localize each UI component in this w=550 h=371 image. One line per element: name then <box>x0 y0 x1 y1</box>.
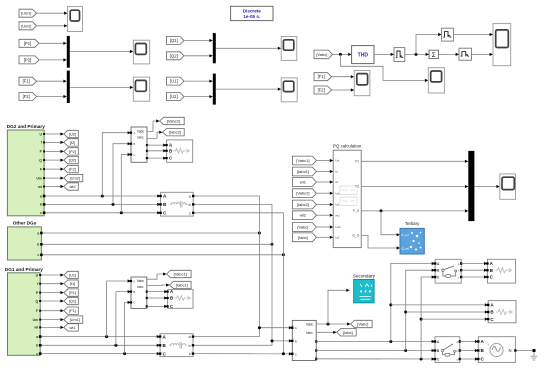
wire <box>147 297 164 299</box>
wire <box>147 291 164 293</box>
goto tag [Iabc2] <box>163 129 185 136</box>
svg-text:[Um2]: [Um2] <box>70 176 80 181</box>
svg-text:[Iabc1]: [Iabc1] <box>297 169 309 174</box>
wire T1 b to grid VI <box>194 341 289 345</box>
wire riser right b <box>406 270 435 350</box>
goto tag [Vabc] <box>351 320 373 327</box>
svg-text:B: B <box>134 142 136 146</box>
wire <box>332 76 351 78</box>
block transformer T1 <box>160 334 193 357</box>
scope THD big <box>493 24 511 66</box>
wire <box>37 12 65 14</box>
svg-text:[Q1]: [Q1] <box>69 299 76 304</box>
powergui Discrete 1e-05 s. <box>231 6 273 20</box>
svg-text:wt2: wt2 <box>69 184 75 189</box>
svg-text:[Vabc]: [Vabc] <box>357 322 368 327</box>
wire <box>42 319 61 321</box>
wire P2 <box>361 186 465 188</box>
svg-text:Iabc: Iabc <box>137 285 144 289</box>
wire Q_G to Tertiary <box>361 235 396 248</box>
goto tag [Q1] <box>64 297 79 304</box>
scope F <box>133 77 149 101</box>
svg-text:[f1]: [f1] <box>70 281 75 286</box>
svg-text:[Um2]: [Um2] <box>21 23 31 28</box>
svg-text:B: B <box>169 148 172 153</box>
svg-text:[F2]: [F2] <box>69 167 76 172</box>
wire <box>45 168 60 170</box>
wire riser phase c <box>282 213 284 354</box>
svg-text:[F1]: [F1] <box>318 74 325 79</box>
wire <box>39 42 63 44</box>
wire Vabc out grid <box>316 323 347 325</box>
wire <box>453 34 489 36</box>
wire phase a DG1 <box>42 336 157 338</box>
wire T1 a to grid VI <box>194 328 289 337</box>
goto tag [P2] <box>64 148 79 155</box>
from tag wt1 PQ <box>292 178 316 187</box>
svg-text:wt2: wt2 <box>300 213 307 218</box>
svg-text:Ia2: Ia2 <box>335 236 340 240</box>
wire riser c to VI1 <box>125 302 128 353</box>
goto tag [f1] <box>64 280 79 287</box>
wire <box>333 53 349 55</box>
wire <box>147 157 163 159</box>
svg-text:[Um1]: [Um1] <box>70 317 80 322</box>
block THD <box>352 46 374 64</box>
mux P1 P2 <box>67 36 70 68</box>
from tag [F1] right <box>314 73 332 81</box>
svg-text:DG2 and Primary: DG2 and Primary <box>7 124 45 129</box>
from tag [Vabc] top <box>314 50 333 59</box>
from tag [Um2] <box>19 22 37 30</box>
wire <box>374 53 391 55</box>
mux Q1 Q2 <box>213 33 216 63</box>
wire T1 c to grid VI <box>194 353 289 355</box>
block transformer T2 <box>161 192 194 216</box>
goto tag wt2 <box>64 183 79 190</box>
scope P <box>133 40 149 64</box>
svg-text:a: a <box>36 335 38 339</box>
svg-text:[Q1]: [Q1] <box>170 38 178 43</box>
wire <box>45 177 60 179</box>
wire <box>42 310 61 312</box>
filter block 3 <box>459 48 472 60</box>
svg-text:Ia1: Ia1 <box>335 203 340 207</box>
svg-text:[f2]: [f2] <box>70 140 75 145</box>
svg-text:PQ calculation: PQ calculation <box>333 144 362 149</box>
goto tag [F1] <box>64 307 79 314</box>
svg-text:Q_G: Q_G <box>352 234 359 238</box>
goto tag [Um1] <box>64 316 83 323</box>
wire <box>184 80 209 82</box>
svg-text:P1: P1 <box>355 160 359 164</box>
wire <box>316 181 329 183</box>
wire load B a <box>391 304 485 306</box>
goto tag [Iabc] <box>337 329 357 336</box>
wire <box>216 88 278 90</box>
scope P mux <box>500 174 516 199</box>
svg-text:A: A <box>295 326 297 330</box>
svg-text:b: b <box>189 203 191 207</box>
svg-text:A: A <box>134 131 136 135</box>
svg-text:[U1]: [U1] <box>170 79 178 84</box>
wire <box>184 96 209 98</box>
svg-text:b: b <box>188 344 190 348</box>
wire <box>70 86 130 88</box>
svg-text:[F1]: [F1] <box>69 308 76 313</box>
svg-text:[U2]: [U2] <box>170 94 178 99</box>
from tag wt2 PQ <box>292 211 316 220</box>
wire <box>332 89 351 91</box>
wire <box>45 133 60 135</box>
wire bus c <box>43 254 284 256</box>
scope Um <box>68 7 83 32</box>
svg-text:N: N <box>508 348 511 353</box>
wire <box>42 283 61 285</box>
wire phase b DG1 <box>42 344 157 346</box>
wire to Secondary <box>328 290 346 324</box>
wire <box>147 150 163 152</box>
svg-text:b: b <box>40 203 42 207</box>
wire <box>45 150 60 152</box>
wire branch up <box>416 35 438 55</box>
svg-text:Um: Um <box>36 176 41 180</box>
svg-text:[F2]: [F2] <box>23 94 30 99</box>
block three-phase load 1 <box>168 290 193 309</box>
scope F right <box>354 71 370 96</box>
from tag [U1] <box>167 77 185 85</box>
wire <box>37 25 65 27</box>
wire P_G branch to Tertiary <box>381 211 397 235</box>
wire <box>194 203 272 205</box>
wire grid c <box>316 358 431 360</box>
svg-text:Ua: Ua <box>335 159 339 163</box>
wire Iabc out grid <box>316 331 333 333</box>
wire Vabc to scope <box>340 54 425 80</box>
goto tag [U1] <box>64 271 79 278</box>
wire <box>39 59 63 61</box>
goto tag [f2] <box>64 139 79 146</box>
svg-text:Secondary: Secondary <box>353 273 376 278</box>
wire riser a to VI2 <box>102 133 127 196</box>
svg-text:c: c <box>37 253 39 257</box>
wire phase c DG2 <box>45 212 157 214</box>
svg-text:Tertiary: Tertiary <box>405 221 420 226</box>
wire P1 <box>361 160 465 162</box>
wire Vabc2 out <box>147 121 156 132</box>
mux U1 U2 <box>213 74 216 105</box>
svg-text:c: c <box>189 211 191 215</box>
wire <box>216 47 278 49</box>
wire riser b to VI1 <box>116 292 128 346</box>
wire grid b <box>316 350 431 352</box>
svg-text:Vabc: Vabc <box>137 130 145 134</box>
wire P_G <box>361 210 465 212</box>
svg-text:b: b <box>37 243 39 247</box>
svg-text:[U2]: [U2] <box>69 132 76 137</box>
from tag [Um1] <box>19 9 37 17</box>
svg-text:[Vabc2]: [Vabc2] <box>167 119 180 124</box>
goto tag [U2] <box>64 130 79 137</box>
svg-text:P_ref: P_ref <box>402 233 409 237</box>
wire <box>316 236 329 238</box>
from tag [Iabc] PQ <box>292 233 316 242</box>
wire <box>184 40 209 42</box>
wire grid a <box>316 341 431 343</box>
wire <box>184 55 209 57</box>
wire Iabc1 out <box>147 284 166 287</box>
wire <box>316 226 329 228</box>
wire <box>147 305 164 307</box>
mux P signals <box>468 151 474 221</box>
svg-text:Discrete: Discrete <box>243 8 262 13</box>
svg-text:C: C <box>133 301 135 305</box>
wire <box>42 274 61 276</box>
block VI measurement grid <box>292 320 316 360</box>
block three-phase load 2 <box>167 140 193 162</box>
svg-text:[U1]: [U1] <box>69 273 76 278</box>
svg-text:wt: wt <box>335 180 338 184</box>
svg-text:[Um1]: [Um1] <box>21 11 31 16</box>
svg-text:F: F <box>40 167 42 171</box>
svg-text:[F2]: [F2] <box>318 88 325 93</box>
wire <box>45 159 60 161</box>
svg-text:[Vabc]: [Vabc] <box>297 225 308 230</box>
svg-text:B: B <box>133 290 135 294</box>
wire <box>194 195 259 197</box>
svg-text:a: a <box>40 194 42 198</box>
from tag [P2] <box>19 56 39 64</box>
svg-text:wt1: wt1 <box>300 180 307 185</box>
svg-text:Vabc: Vabc <box>306 322 314 326</box>
scope U <box>281 78 297 102</box>
wire riser phase a <box>258 196 260 328</box>
svg-text:+: + <box>487 343 489 347</box>
from tag [Vabc2] PQ <box>292 189 316 198</box>
wire <box>474 186 496 188</box>
wire load B b <box>406 311 485 313</box>
from tag [Q2] <box>167 52 185 60</box>
svg-text:B: B <box>170 296 173 301</box>
goto tag [Um2] <box>64 174 83 181</box>
block VI measurement 1 <box>131 277 147 308</box>
svg-text:[P2]: [P2] <box>24 57 31 62</box>
svg-text:[Q2]: [Q2] <box>170 53 178 58</box>
svg-text:[Iabc]: [Iabc] <box>343 330 353 335</box>
wire <box>460 341 475 343</box>
filter block 1 <box>394 48 405 62</box>
from tag [P1] <box>19 39 39 47</box>
svg-text:wt1: wt1 <box>69 325 75 330</box>
block breaker 2 <box>435 337 460 363</box>
svg-text:Iabc: Iabc <box>306 331 313 335</box>
wire Iabc2 out <box>147 132 159 138</box>
ground <box>530 352 537 360</box>
svg-text:[Vabc1]: [Vabc1] <box>296 158 309 163</box>
sum block <box>429 50 438 58</box>
wire <box>45 186 60 188</box>
wire <box>45 141 60 143</box>
wire <box>37 96 64 98</box>
node load B b <box>404 311 407 314</box>
wire <box>460 358 475 360</box>
from tag [Vabc] PQ <box>292 223 316 232</box>
goto tag [Iabc1] <box>170 281 192 288</box>
wire to ground <box>517 350 534 352</box>
wire <box>438 53 455 55</box>
wire <box>316 171 329 173</box>
goto tag [Vabc2] <box>160 117 185 124</box>
svg-text:c: c <box>36 352 38 356</box>
wire riser phase b <box>271 204 273 341</box>
goto tag [Vabc1] <box>167 270 192 277</box>
svg-text:Um: Um <box>33 318 38 322</box>
svg-text:[Vabc1]: [Vabc1] <box>174 272 187 277</box>
svg-text:F: F <box>36 309 38 313</box>
svg-text:P2: P2 <box>355 185 359 189</box>
wire riser a to VI1 <box>107 281 128 337</box>
svg-text:[F1]: [F1] <box>23 79 30 84</box>
wire <box>42 292 61 294</box>
mux F1 F2 <box>67 71 70 103</box>
wire <box>70 51 130 53</box>
svg-text:[Iabc1]: [Iabc1] <box>176 283 188 288</box>
svg-text:DG1 and Primary: DG1 and Primary <box>5 267 43 272</box>
wire <box>316 192 329 194</box>
wire <box>316 204 329 206</box>
svg-text:Ua2: Ua2 <box>335 225 341 229</box>
block three-phase load A <box>487 259 515 283</box>
svg-text:wt1: wt1 <box>335 213 340 217</box>
goto tag wt1 <box>64 324 79 331</box>
wire <box>37 80 64 82</box>
wire phase c DG1 <box>42 353 157 355</box>
svg-text:B: B <box>295 339 297 343</box>
wire phase a DG2 <box>45 195 157 197</box>
node load B a <box>389 303 392 306</box>
filter block 2 <box>442 28 454 41</box>
svg-text:c: c <box>40 211 42 215</box>
goto tag [F2] <box>64 165 79 172</box>
wire <box>147 144 163 146</box>
wire <box>194 212 283 214</box>
scope Vabc <box>428 68 444 93</box>
goto tag [P1] <box>64 289 79 296</box>
svg-text:[Iabc2]: [Iabc2] <box>169 130 181 135</box>
wire bus b <box>43 243 272 245</box>
scope Q <box>281 37 297 61</box>
wire riser right a <box>391 264 435 342</box>
svg-text:Ia: Ia <box>335 170 338 174</box>
wire riser right c <box>421 277 435 359</box>
svg-text:Σ: Σ <box>432 52 436 59</box>
block three-phase load B <box>488 301 516 323</box>
svg-text:Q_ref: Q_ref <box>402 247 410 251</box>
svg-text:[Vabc]: [Vabc] <box>316 52 327 57</box>
wire load B c <box>421 318 485 320</box>
svg-text:Vabc: Vabc <box>137 279 145 283</box>
wire <box>42 326 61 328</box>
wire <box>472 53 490 55</box>
svg-text:THD: THD <box>358 52 369 58</box>
wire bus a <box>43 232 260 234</box>
wire <box>461 263 484 265</box>
svg-text:[Iabc]: [Iabc] <box>298 235 308 240</box>
svg-text:a: a <box>37 231 39 235</box>
svg-text:Other DGs: Other DGs <box>13 221 37 226</box>
svg-text:Q: Q <box>35 299 38 303</box>
block three-phase source <box>478 337 515 363</box>
wire riser b to VI2 <box>113 144 128 205</box>
svg-text:[P2]: [P2] <box>69 149 76 154</box>
wire phase b DG2 <box>45 203 157 205</box>
block VI measurement 2 <box>131 127 147 162</box>
from tag [Iabc1] PQ <box>292 167 316 176</box>
from tag [Vabc1] PQ <box>292 156 316 165</box>
from tag [F1] <box>19 77 37 85</box>
wire <box>405 53 426 55</box>
svg-text:c: c <box>189 352 191 356</box>
from tag [U2] <box>167 93 185 101</box>
goto tag [Q2] <box>64 156 79 163</box>
node load B c <box>420 318 423 321</box>
wire riser c to VI2 <box>121 155 127 213</box>
block breaker 1 <box>435 259 461 283</box>
wire <box>316 160 329 162</box>
from tag [Iabc2] PQ <box>292 200 316 209</box>
svg-text:A: A <box>133 279 135 283</box>
wire <box>460 350 475 352</box>
wire <box>461 269 484 271</box>
wire Vabc1 out <box>147 274 163 279</box>
svg-text:[Vabc2]: [Vabc2] <box>296 191 309 196</box>
svg-text:[P1]: [P1] <box>69 290 76 295</box>
wire <box>42 300 61 302</box>
from tag [F2] <box>19 93 37 101</box>
svg-text:b: b <box>36 344 38 348</box>
from tag [F2] right <box>314 86 332 94</box>
from tag [Q1] <box>167 37 185 45</box>
svg-text:[P1]: [P1] <box>24 41 31 46</box>
wire <box>461 276 484 278</box>
svg-text:C: C <box>134 153 136 157</box>
svg-text:Q: Q <box>39 158 42 162</box>
svg-text:[Iabc2]: [Iabc2] <box>297 202 309 207</box>
svg-text:Iabc: Iabc <box>137 136 144 140</box>
svg-text:1e-05 s.: 1e-05 s. <box>243 14 260 19</box>
wire <box>316 214 329 216</box>
svg-text:P_G: P_G <box>353 209 360 213</box>
svg-text:[Q2]: [Q2] <box>69 158 76 163</box>
